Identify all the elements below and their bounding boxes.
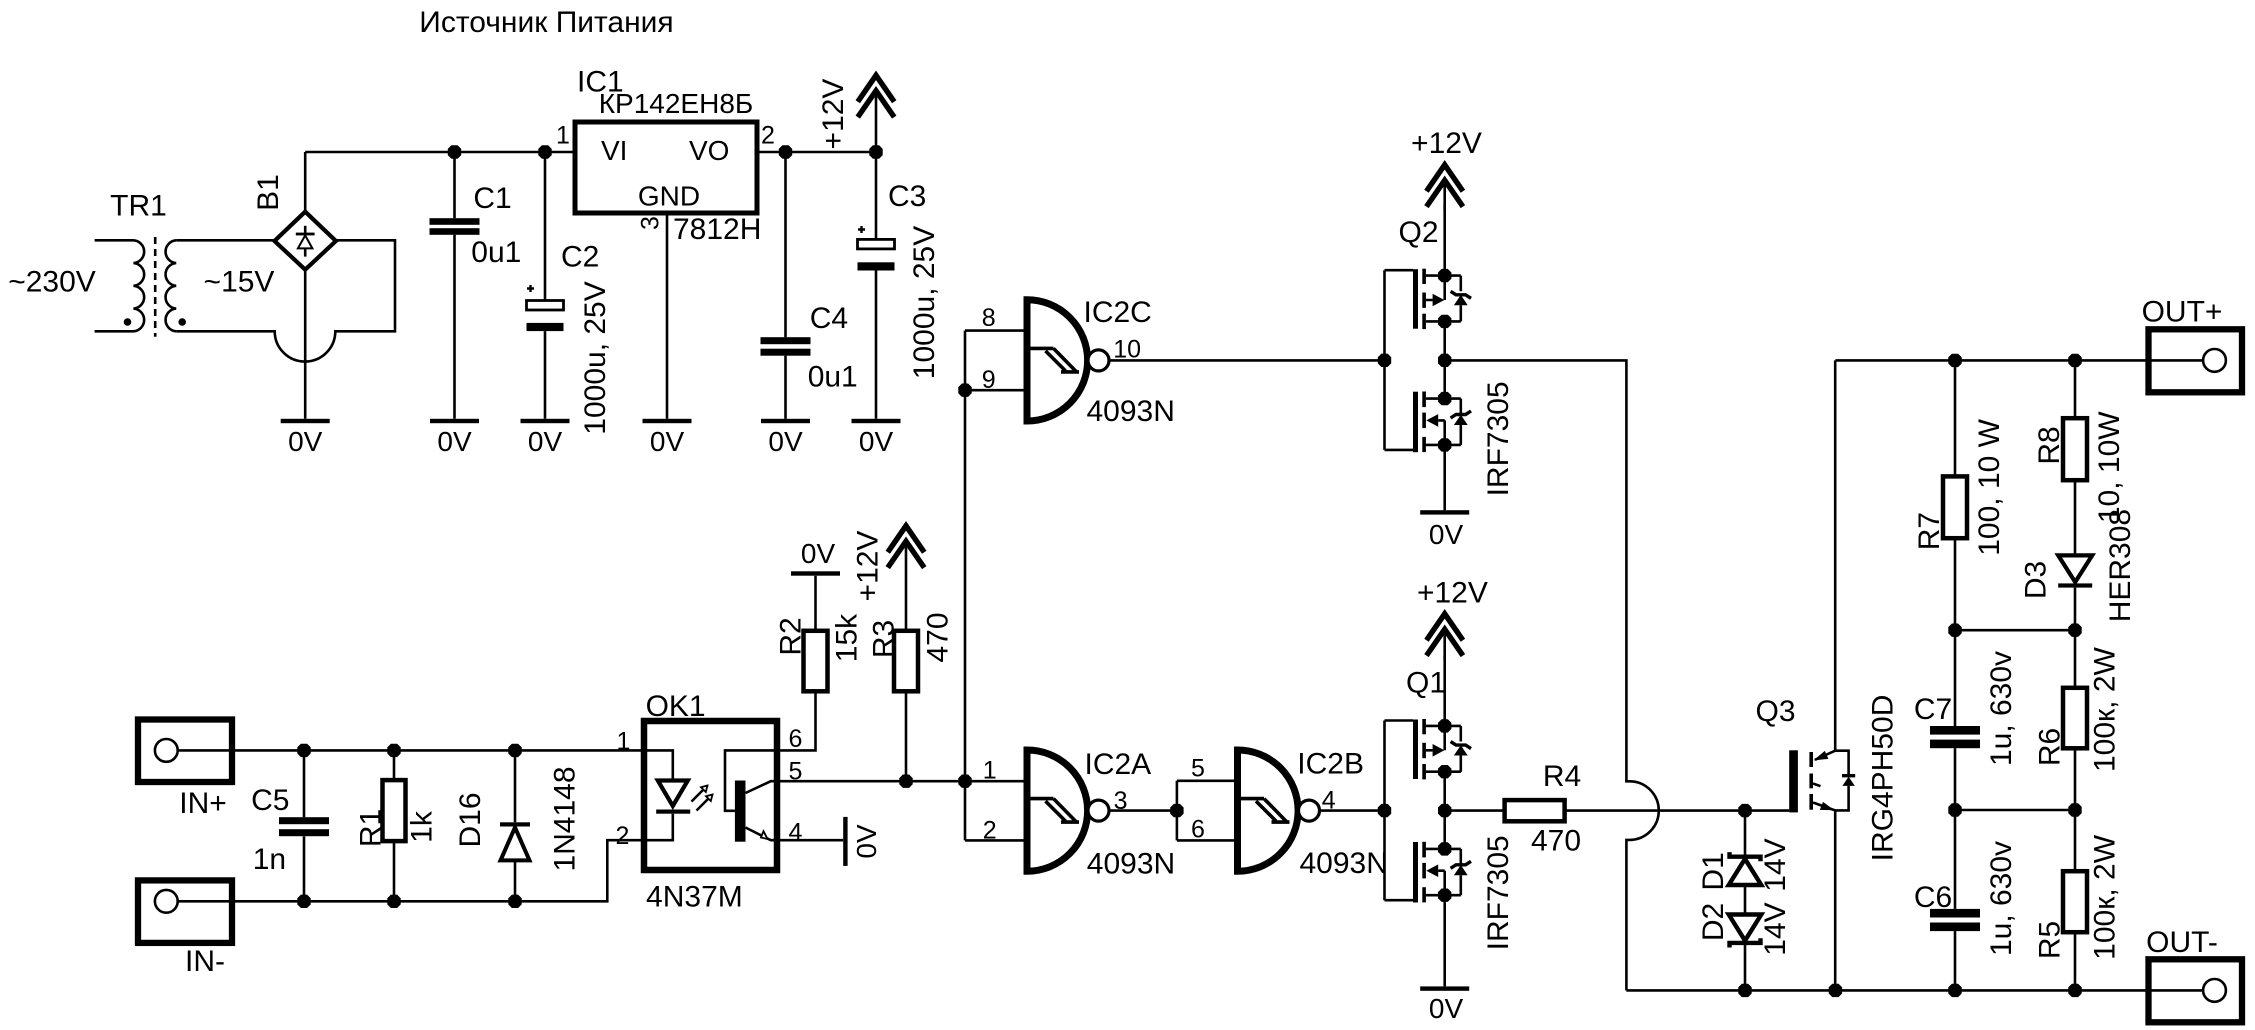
svg-text:+12V: +12V	[1411, 127, 1482, 160]
wire Q1 source to ground	[1443, 895, 1446, 986]
wire VO rail	[757, 151, 876, 154]
wire IC2C output to Q2	[1109, 359, 1384, 362]
svg-text:IC2A: IC2A	[1085, 748, 1152, 781]
svg-text:IC2B: IC2B	[1297, 748, 1364, 781]
ground 0V R2 top	[791, 571, 840, 575]
svg-text:0V: 0V	[1429, 519, 1464, 550]
svg-text:B1: B1	[252, 174, 285, 211]
svg-text:100к, 2W: 100к, 2W	[2089, 834, 2122, 960]
svg-text:3: 3	[637, 216, 665, 230]
node D2 bottom	[1738, 984, 1751, 997]
svg-text:C4: C4	[810, 302, 848, 335]
svg-text:1: 1	[983, 756, 997, 784]
svg-text:C7: C7	[1914, 693, 1952, 726]
svg-text:0V: 0V	[650, 426, 685, 457]
nand gate IC2C	[1027, 300, 1109, 421]
svg-text:1n: 1n	[253, 843, 286, 876]
svg-text:Q2: Q2	[1398, 216, 1438, 249]
svg-text:0V: 0V	[288, 426, 323, 457]
capacitor C5	[279, 750, 329, 901]
svg-text:R6: R6	[2034, 728, 2067, 766]
wire secondary top to bridge	[176, 239, 275, 242]
svg-text:C2: C2	[561, 241, 599, 274]
wire bridge bottom to ground	[304, 270, 307, 419]
terminal OUT+	[2148, 329, 2242, 392]
terminal IN-	[138, 880, 232, 943]
svg-text:2: 2	[616, 822, 630, 850]
mosfet pair Q1 IRF7305	[1378, 655, 1471, 903]
svg-text:1000u, 25V: 1000u, 25V	[908, 226, 941, 379]
zener diode D2	[1729, 915, 1762, 991]
nand gate IC2A	[1027, 750, 1109, 871]
svg-text:R8: R8	[2033, 426, 2066, 464]
node R5 top	[2068, 803, 2081, 816]
svg-text:IRF7305: IRF7305	[1482, 381, 1515, 496]
ground 0V C1	[430, 419, 479, 423]
svg-text:8: 8	[982, 304, 996, 332]
svg-text:7812Н: 7812Н	[673, 213, 761, 246]
ground 0V C3	[852, 419, 901, 423]
wire IC1 GND pin	[666, 213, 669, 419]
svg-text:0V: 0V	[1429, 993, 1464, 1024]
node R1 top	[387, 744, 400, 757]
svg-text:VI: VI	[601, 135, 627, 166]
node pin9 tie	[958, 384, 971, 397]
diode D3	[2058, 555, 2092, 630]
wire secondary bottom with hop	[176, 240, 395, 361]
svg-text:R1: R1	[355, 809, 388, 847]
svg-text:C1: C1	[473, 182, 511, 215]
terminal OUT-	[2148, 959, 2242, 1022]
node C1 junction	[448, 145, 461, 158]
node Q3 gate / zener	[1738, 804, 1751, 817]
zener diode D1	[1729, 811, 1762, 915]
svg-text:1: 1	[617, 728, 631, 756]
svg-text:2: 2	[983, 817, 997, 845]
svg-text:D2: D2	[1697, 903, 1730, 941]
node C5 bottom	[297, 895, 310, 908]
svg-text:4N37M: 4N37M	[646, 881, 743, 914]
wire mid rail 1	[1955, 629, 2075, 632]
svg-text:0V: 0V	[768, 426, 803, 457]
svg-text:Источник Питания: Источник Питания	[419, 6, 673, 39]
svg-text:Q1: Q1	[1406, 667, 1446, 700]
svg-text:100, 10 W: 100, 10 W	[1973, 418, 2006, 555]
diode D16	[500, 750, 530, 901]
svg-text:2: 2	[761, 122, 775, 150]
svg-text:+12V: +12V	[817, 79, 850, 150]
ground 0V C4	[761, 419, 810, 423]
mosfet pair Q2 IRF7305	[1378, 205, 1471, 453]
node D16 top	[508, 744, 521, 757]
power +12V arrow Q2	[1428, 165, 1461, 205]
wire OUT- rail	[1626, 989, 2148, 992]
svg-text:4093N: 4093N	[1087, 395, 1175, 428]
svg-text:IC2C: IC2C	[1084, 296, 1152, 329]
svg-text:OK1: OK1	[646, 690, 706, 723]
resistor R3	[894, 631, 918, 781]
wire bridge top to rail	[304, 152, 307, 212]
svg-text:C5: C5	[251, 784, 289, 817]
svg-text:+12V: +12V	[852, 531, 885, 602]
ground 0V Q2	[1420, 510, 1469, 514]
svg-text:1N4148: 1N4148	[549, 766, 582, 871]
svg-text:КР142ЕН8Б: КР142ЕН8Б	[599, 88, 754, 119]
svg-text:4093N: 4093N	[1087, 847, 1175, 880]
node R5 bottom	[2068, 984, 2081, 997]
resistor R7	[1943, 360, 1967, 630]
wire Q2 source to ground	[1443, 445, 1446, 510]
node C2 junction	[538, 145, 551, 158]
svg-text:0u1: 0u1	[808, 361, 858, 394]
svg-text:+12V: +12V	[1417, 577, 1488, 610]
svg-text:1: 1	[556, 122, 570, 150]
node Q3 emitter bottom	[1829, 984, 1842, 997]
svg-text:IN-: IN-	[185, 945, 225, 978]
wire IN- rail	[178, 840, 644, 901]
voltage regulator IC1	[575, 122, 757, 213]
svg-text:0V: 0V	[859, 426, 894, 457]
wire OUT+ rail	[1835, 359, 2148, 362]
svg-text:OUT-: OUT-	[2146, 926, 2218, 959]
node C6 bottom	[1948, 984, 1961, 997]
power +12V arrow Q1	[1428, 614, 1461, 654]
svg-text:R2: R2	[775, 617, 808, 655]
svg-text:TR1: TR1	[110, 190, 167, 223]
node R1 bottom	[387, 895, 400, 908]
transformer TR1	[95, 237, 186, 337]
terminal IN+	[138, 720, 232, 783]
optocoupler OK1	[644, 721, 777, 870]
svg-text:R5: R5	[2034, 921, 2067, 959]
svg-text:5: 5	[1191, 754, 1205, 782]
wire IN+ rail	[178, 749, 644, 752]
node C6 top	[1948, 803, 1961, 816]
wire top rail	[305, 151, 575, 154]
ground 0V IC1	[643, 419, 692, 423]
svg-text:1000u, 25V: 1000u, 25V	[579, 281, 612, 434]
svg-text:1u, 630v: 1u, 630v	[1985, 841, 2018, 956]
node R7 top	[1948, 354, 1961, 367]
igbt Q3 IRG4PH50D	[1789, 360, 1855, 990]
svg-text:GND: GND	[638, 181, 700, 212]
svg-text:IN+: IN+	[179, 787, 227, 820]
capacitor C3 electrolytic	[858, 152, 895, 419]
resistor R4	[1505, 800, 1565, 821]
wire IC2A output	[1109, 809, 1177, 812]
svg-text:D3: D3	[2020, 561, 2053, 599]
svg-text:OUT+: OUT+	[2142, 296, 2223, 329]
svg-text:R7: R7	[1913, 512, 1946, 550]
capacitor C4	[761, 152, 811, 419]
svg-text:~230V: ~230V	[8, 266, 96, 299]
capacitor C6	[1930, 810, 1980, 990]
svg-text:6: 6	[788, 725, 802, 753]
svg-text:IRG4PH50D: IRG4PH50D	[1867, 695, 1900, 862]
svg-text:0V: 0V	[801, 538, 836, 569]
svg-text:D16: D16	[454, 792, 487, 847]
ground 0V OK1 pin4	[843, 817, 847, 866]
svg-text:D1: D1	[1697, 852, 1730, 890]
power +12V arrow top	[859, 75, 892, 115]
svg-text:14V: 14V	[1759, 902, 1792, 955]
svg-text:Q3: Q3	[1755, 695, 1795, 728]
svg-text:1u, 630v: 1u, 630v	[1985, 651, 2018, 766]
svg-text:470: 470	[922, 612, 955, 662]
bridge rectifier B1	[275, 212, 336, 270]
svg-text:10, 10W: 10, 10W	[2093, 411, 2126, 523]
svg-text:9: 9	[982, 366, 996, 394]
svg-text:4093N: 4093N	[1300, 847, 1388, 880]
svg-text:0V: 0V	[528, 426, 563, 457]
ground 0V C2	[521, 419, 570, 423]
resistor R1	[383, 750, 406, 901]
svg-text:R4: R4	[1543, 760, 1581, 793]
svg-text:HER308: HER308	[2104, 509, 2137, 622]
svg-text:0u1: 0u1	[471, 236, 521, 269]
resistor R8	[2063, 360, 2087, 554]
svg-text:C3: C3	[888, 180, 926, 213]
wire pin6 to R2	[777, 691, 816, 750]
ground 0V bridge	[281, 419, 330, 423]
svg-text:0V: 0V	[851, 824, 882, 859]
svg-text:~15V: ~15V	[204, 266, 275, 299]
svg-text:R3: R3	[868, 620, 901, 658]
capacitor C2 electrolytic	[527, 152, 564, 419]
svg-text:C6: C6	[1914, 881, 1952, 914]
node C7 top	[1948, 624, 1961, 637]
node gate input tie	[958, 775, 971, 788]
svg-text:6: 6	[1191, 816, 1205, 844]
svg-text:1k: 1k	[406, 810, 439, 843]
wire IC2B input tie	[1177, 781, 1238, 841]
node R8 top	[2068, 354, 2081, 367]
svg-text:470: 470	[1531, 825, 1581, 858]
node C3 junction	[869, 145, 882, 158]
ground 0V Q1	[1420, 986, 1469, 990]
node R6 top	[2068, 624, 2081, 637]
svg-text:14V: 14V	[1759, 838, 1792, 891]
node C4 junction	[779, 145, 792, 158]
svg-text:0V: 0V	[437, 426, 472, 457]
resistor R5	[2063, 810, 2087, 990]
wire Q1 output to R4	[1445, 809, 1505, 812]
wire mid rail 2	[1955, 809, 2075, 812]
node IC2A out tie	[1170, 804, 1183, 817]
capacitor C1	[430, 152, 480, 419]
svg-text:100к, 2W: 100к, 2W	[2089, 646, 2122, 772]
wire pin4 to ground	[777, 839, 843, 842]
svg-text:15k: 15k	[831, 613, 864, 662]
resistor R6	[2063, 630, 2087, 810]
wire IC2B output to Q1	[1320, 809, 1385, 812]
wire IC2C input tie	[965, 331, 1027, 841]
svg-text:VO: VO	[689, 135, 729, 166]
wire pin5 node line	[777, 780, 1027, 783]
svg-text:4: 4	[788, 819, 802, 847]
nand gate IC2B	[1238, 750, 1320, 871]
node C5 top	[297, 744, 310, 757]
resistor R2	[804, 576, 828, 692]
capacitor C7	[1930, 630, 1980, 810]
wire Q2 output down with hop	[1445, 360, 1659, 990]
node D16 bottom	[508, 895, 521, 908]
node R3 bottom	[899, 775, 912, 788]
wire R4 to Q3 gate	[1565, 809, 1790, 812]
svg-text:IRF7305: IRF7305	[1482, 835, 1515, 950]
power +12V arrow R3	[889, 526, 922, 566]
